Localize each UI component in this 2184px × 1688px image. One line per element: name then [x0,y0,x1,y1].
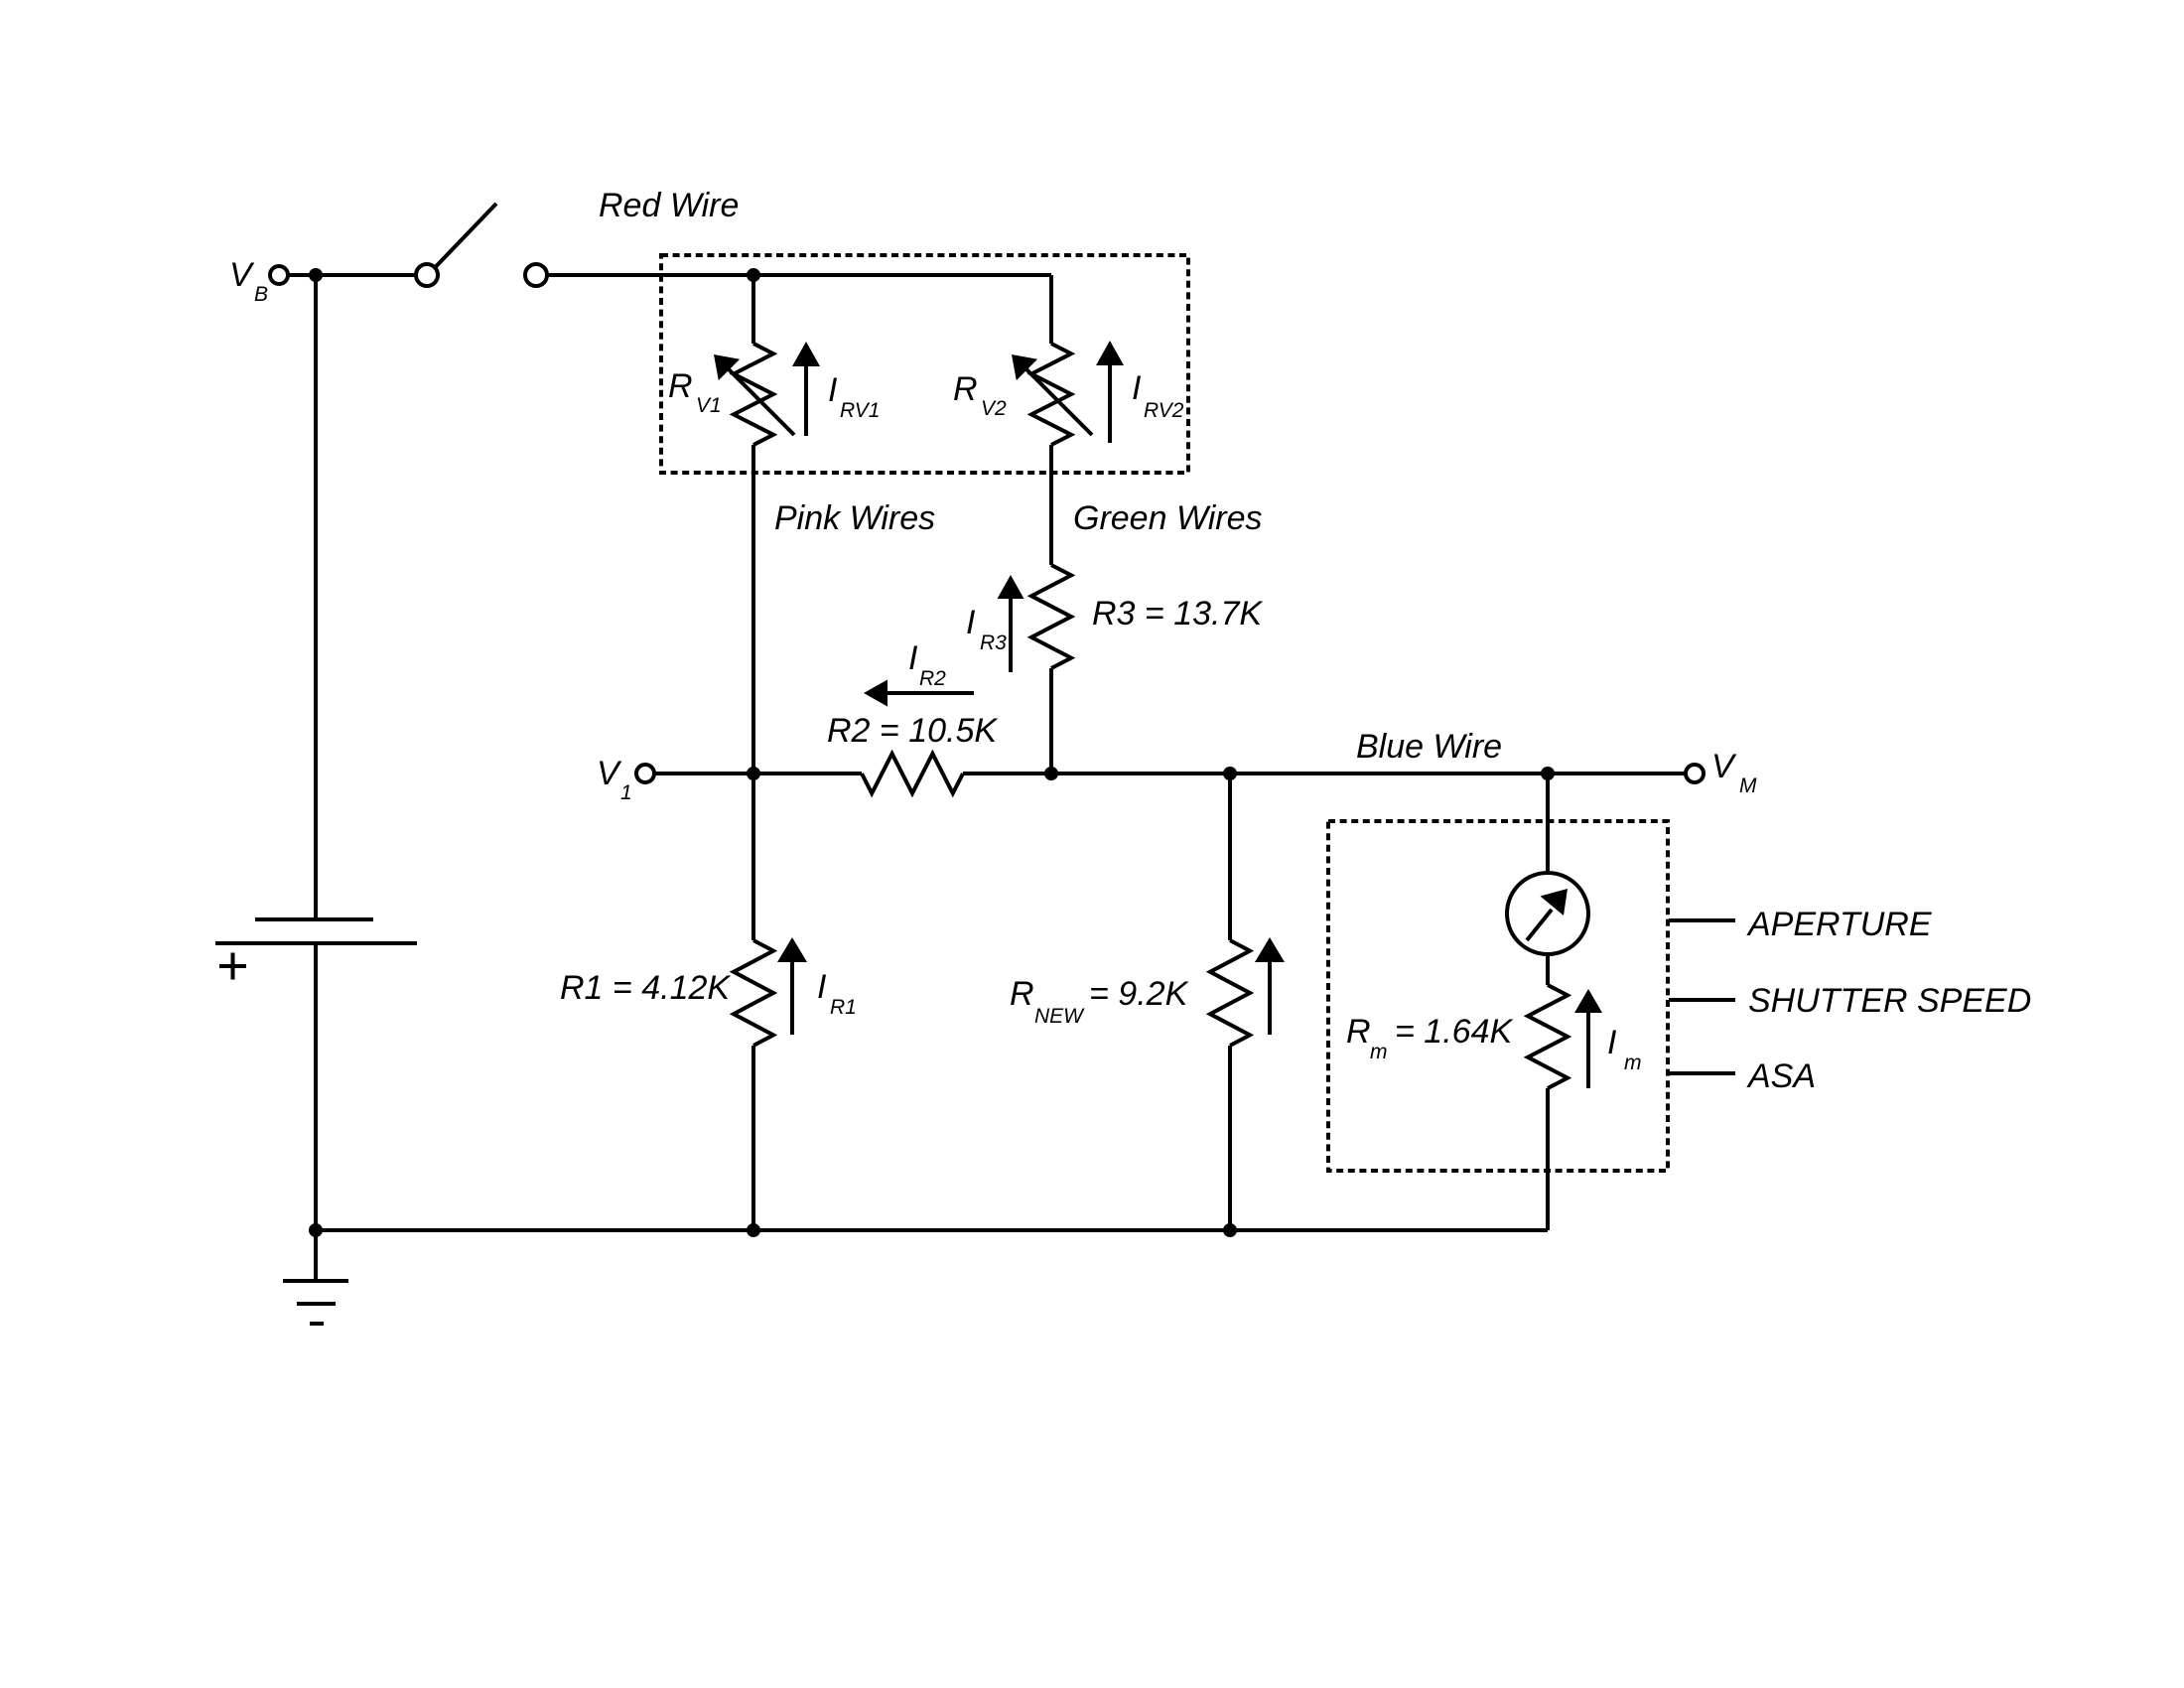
wire battery bottom plate to bottom rail [314,943,318,1230]
svg-text:V: V [1711,748,1737,785]
wire top rail corner down into RV2 (green branch top) [1049,275,1053,344]
svg-text:Pink Wires: Pink Wires [774,499,935,537]
junction bottom rail / RNEW [1223,1223,1237,1237]
junction mid rail / RNEW branch [1223,767,1237,780]
wire Rm to bottom rail [1546,1088,1550,1230]
switch S1 pivot circle [416,264,438,286]
label Rm value [1346,1013,1513,1063]
svg-text:ASA: ASA [1746,1057,1816,1095]
battery B1 top plate [255,917,373,921]
svg-text:APERTURE: APERTURE [1746,906,1932,943]
wire battery column (VB junction down to battery top plate) [314,275,318,919]
callout line APERTURE [1669,918,1735,922]
wire RNEW to bottom rail [1228,1046,1232,1230]
svg-text:R: R [1346,1013,1371,1051]
meter M1 needle [1527,889,1568,940]
resistor Rm zigzag [1528,985,1568,1088]
svg-text:R3 = 13.7K: R3 = 13.7K [1092,595,1263,633]
node VB terminal label [229,256,268,306]
wire R1 to bottom rail [751,1046,755,1230]
svg-text:M: M [1739,774,1757,797]
current arrow IR1 [777,937,807,1035]
svg-text:R2: R2 [919,667,946,690]
label IR3 [966,604,1007,654]
junction mid rail / pink branch [747,767,760,780]
callout line SHUTTER SPEED [1669,998,1735,1002]
junction mid rail / green branch [1044,767,1058,780]
svg-text:V: V [597,755,622,792]
wire pink branch mid rail to R1 [751,774,755,940]
junction mid rail / meter branch [1541,767,1555,780]
junction VB/battery top [309,268,323,282]
wire pink branch top segment [751,275,755,344]
node V1 terminal circle [636,765,654,782]
wire meter branch mid rail down to meter [1546,774,1550,873]
current arrow IR2 (leftward) [864,680,974,707]
svg-text:R3: R3 [980,632,1007,654]
label IR2 [908,639,946,690]
resistor RNEW zigzag [1210,940,1250,1046]
svg-text:V2: V2 [981,397,1007,420]
current arrow Im [1574,989,1602,1088]
variable resistor RV2 zigzag [1031,344,1071,445]
svg-text:I: I [1132,369,1142,407]
current arrow IRV2 [1096,341,1124,443]
svg-text:= 9.2K: = 9.2K [1089,975,1189,1013]
wire V1 to R2 [654,772,862,775]
svg-text:R: R [1010,975,1034,1013]
switch S1 blade (open) [436,204,497,267]
svg-text:R2 = 10.5K: R2 = 10.5K [827,712,998,750]
svg-text:Red Wire: Red Wire [599,187,739,224]
node VM terminal circle [1686,765,1704,782]
junction bottom rail / R1 [747,1223,760,1237]
svg-text:1: 1 [620,781,632,804]
svg-text:= 1.64K: = 1.64K [1395,1013,1513,1051]
svg-text:Green Wires: Green Wires [1073,499,1263,537]
wire green branch RV2 to R3 [1049,445,1053,565]
current arrow IRV1 [792,342,820,436]
node VM terminal label [1711,748,1757,797]
svg-text:R: R [953,370,978,408]
label RV2 [953,370,1007,420]
label RV1 [668,367,722,417]
label IRV2 [1132,369,1184,422]
svg-text:R1: R1 [830,996,857,1019]
resistor R2 zigzag [862,754,963,793]
variable resistor RV2 wiper arrow [1012,354,1092,435]
svg-text:Blue Wire: Blue Wire [1356,728,1502,766]
switch S1 right contact circle [525,264,547,286]
label RNEW value [1010,975,1189,1028]
svg-text:m: m [1370,1041,1388,1063]
wire VB terminal to junction [288,273,316,277]
svg-text:I: I [828,371,838,409]
label IRV1 [828,371,880,422]
ground symbol [283,1230,348,1324]
wire R2 to VM (Blue Wire rail) [963,772,1686,775]
dotted box (meter assembly) [1328,821,1668,1171]
battery B1 bottom plate [215,941,417,945]
battery B1 plus sign [219,953,246,980]
svg-text:RV1: RV1 [840,399,880,422]
wire Red Wire: switch to top box [547,273,1051,277]
svg-text:R1 = 4.12K: R1 = 4.12K [560,969,731,1007]
junction bottom rail / ground [309,1223,323,1237]
svg-text:R: R [668,367,693,405]
current arrow IR3 [998,575,1024,672]
svg-text:I: I [966,604,976,641]
wire pink branch RV1 to mid rail [751,445,755,774]
label Im [1607,1024,1642,1074]
svg-text:RV2: RV2 [1144,399,1184,422]
svg-text:I: I [1607,1024,1617,1061]
node VB terminal circle [270,266,288,284]
callout line ASA [1669,1071,1735,1075]
svg-text:NEW: NEW [1034,1005,1085,1028]
svg-text:SHUTTER SPEED: SHUTTER SPEED [1748,982,2031,1020]
meter M1 circle [1507,873,1588,954]
svg-text:B: B [254,283,268,306]
wire green branch R3 to mid rail [1049,668,1053,774]
svg-text:V1: V1 [696,394,722,417]
dotted box (variable resistors RV1 RV2) [661,255,1188,473]
junction top rail / pink branch [747,268,760,282]
wire junction to switch pivot [316,273,416,277]
current arrow RNEW [1255,937,1285,1035]
svg-text:V: V [229,256,255,294]
node V1 terminal label [597,755,632,804]
wire meter to Rm [1546,954,1550,985]
variable resistor RV1 wiper arrow [714,354,794,435]
resistor R3 zigzag [1031,565,1071,668]
label IR1 [817,968,857,1019]
wire RNEW branch mid rail to RNEW [1228,774,1232,940]
variable resistor RV1 zigzag [734,344,773,445]
wire bottom rail [316,1228,1548,1232]
svg-text:m: m [1624,1052,1642,1074]
svg-text:I: I [908,639,918,677]
resistor R1 zigzag [734,940,773,1046]
svg-text:I: I [817,968,827,1006]
